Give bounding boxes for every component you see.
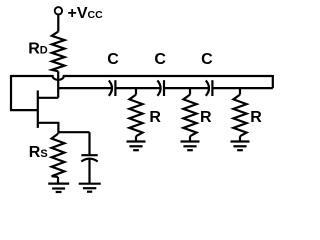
ground R1 bbox=[127, 140, 146, 142]
ground bypass capacitor bbox=[79, 183, 101, 185]
wire terminal to RD bbox=[57, 14, 59, 31]
resistor RD bbox=[52, 32, 65, 72]
wire C2 to C3 bbox=[164, 87, 209, 89]
wire right edge up to top bus bbox=[272, 75, 274, 88]
svg-text:R: R bbox=[250, 109, 262, 126]
transistor Q1 JFET channel bar bbox=[37, 90, 39, 128]
svg-text:R: R bbox=[149, 109, 161, 126]
ground R2 bbox=[181, 140, 200, 142]
resistor RS bbox=[52, 134, 65, 177]
capacitor bypass plates bbox=[81, 154, 97, 156]
capacitor C3 bbox=[206, 80, 209, 95]
svg-text:RS: RS bbox=[29, 144, 48, 161]
svg-text:RD: RD bbox=[28, 41, 48, 58]
capacitor bypass lead bottom bbox=[88, 159, 90, 183]
ground R3 bbox=[231, 140, 250, 142]
svg-text:R: R bbox=[200, 109, 212, 126]
wire RD to drain node bbox=[57, 71, 59, 98]
capacitor C1 bbox=[109, 80, 112, 95]
transistor Q1 drain lead bbox=[38, 97, 58, 99]
wire lower bus drain to C1 bbox=[58, 87, 112, 89]
svg-text:C: C bbox=[107, 51, 119, 68]
resistor R3 bbox=[239, 88, 241, 95]
ground RS bbox=[48, 183, 69, 185]
svg-text:+VCC: +VCC bbox=[68, 5, 104, 22]
resistor R1 bbox=[135, 88, 137, 95]
capacitor C2 bbox=[157, 80, 160, 95]
wire feedback top bus with hop over drain wire bbox=[11, 76, 273, 80]
transistor Q1 source lead bbox=[38, 123, 59, 134]
wire source node to RS and bypass cap bbox=[58, 131, 89, 133]
svg-text:C: C bbox=[154, 51, 166, 68]
capacitor bypass lead top bbox=[88, 132, 90, 154]
terminal +VCC bbox=[55, 7, 62, 14]
wire feedback left side down to gate bbox=[11, 75, 38, 110]
svg-text:C: C bbox=[201, 51, 213, 68]
resistor R2 bbox=[189, 88, 191, 95]
wire C3 to right edge bbox=[212, 87, 272, 89]
wire C1 to C2 bbox=[115, 87, 160, 89]
